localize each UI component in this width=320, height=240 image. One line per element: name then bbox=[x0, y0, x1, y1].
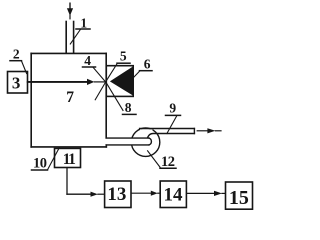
nozzle cone 6 bbox=[110, 67, 133, 95]
svg-text:7: 7 bbox=[66, 89, 74, 106]
duct chamber to blower bbox=[106, 138, 151, 145]
box 15 bbox=[226, 182, 253, 209]
feed arrow 3 to nozzle bbox=[28, 79, 106, 85]
svg-text:4: 4 bbox=[84, 53, 91, 68]
svg-text:14: 14 bbox=[164, 184, 184, 205]
arrow 11 to 13 bbox=[67, 192, 104, 197]
label 10 bbox=[32, 148, 60, 172]
svg-text:15: 15 bbox=[229, 187, 249, 209]
outlet arrow bbox=[197, 128, 221, 133]
svg-text:2: 2 bbox=[13, 46, 20, 61]
blower circle 12 bbox=[131, 128, 159, 156]
label 4 bbox=[83, 53, 96, 68]
arrow 14 to 15 bbox=[187, 191, 226, 196]
box 14 bbox=[160, 181, 186, 208]
svg-text:10: 10 bbox=[33, 156, 47, 172]
spray/leader line to 8 bbox=[106, 82, 123, 110]
inlet arrow bbox=[67, 3, 73, 19]
chamber box 7 bbox=[31, 53, 106, 146]
inlet pipe 1 bbox=[66, 22, 73, 54]
label 1 bbox=[70, 16, 90, 45]
svg-text:5: 5 bbox=[120, 49, 127, 64]
svg-text:6: 6 bbox=[144, 56, 151, 71]
svg-text:11: 11 bbox=[63, 151, 75, 168]
label 6 bbox=[132, 56, 153, 79]
collector box 11 bbox=[55, 148, 81, 167]
box 13 bbox=[105, 181, 131, 208]
line 11 down bbox=[66, 168, 68, 195]
spray/leader line to 4 bbox=[93, 68, 105, 82]
label 8 bbox=[123, 100, 137, 115]
svg-text:3: 3 bbox=[12, 74, 21, 93]
blower outlet duct 9 bbox=[140, 129, 195, 138]
label 12 bbox=[148, 151, 176, 170]
feed box 3 bbox=[8, 72, 28, 94]
arrow 13 to 14 bbox=[131, 191, 160, 196]
spray line lower-left bbox=[95, 82, 105, 100]
nozzle housing 5 bbox=[106, 66, 133, 97]
label 5 bbox=[117, 49, 130, 64]
label 2 bbox=[10, 46, 27, 73]
svg-text:13: 13 bbox=[107, 184, 126, 205]
spray/leader line to 5 bbox=[106, 64, 117, 82]
label 9 bbox=[166, 101, 181, 134]
svg-text:9: 9 bbox=[169, 101, 176, 116]
svg-text:8: 8 bbox=[125, 100, 132, 115]
